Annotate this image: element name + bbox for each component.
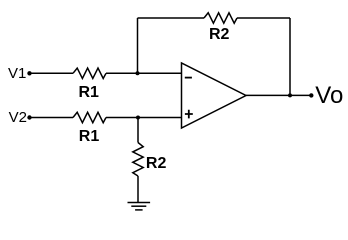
- node junction non-inverting input: [136, 116, 140, 120]
- svg-text:R2: R2: [146, 155, 167, 172]
- resistor R1 (top, inverting input): [73, 68, 106, 78]
- op-amp U1: [182, 63, 247, 128]
- wire V1 to R1: [32, 72, 74, 74]
- svg-text:R1: R1: [79, 128, 100, 145]
- node junction inverting input: [136, 71, 140, 75]
- pin + (non-inverting): [185, 110, 193, 119]
- wire feedback top left: [138, 17, 205, 19]
- node Vo terminal: [309, 93, 313, 97]
- ground: [128, 203, 151, 210]
- wire feedback right vertical: [289, 18, 291, 95]
- resistor R2 (to ground): [133, 143, 143, 177]
- wire op-amp output: [246, 94, 311, 96]
- wire feedback left vertical: [137, 18, 139, 73]
- node V2 terminal: [27, 115, 31, 119]
- node junction output/feedback: [288, 93, 292, 97]
- wire V2 to R1: [32, 117, 74, 119]
- svg-text:R2: R2: [209, 26, 230, 43]
- resistor R1 (bottom, non-inverting input): [73, 112, 106, 122]
- wire R2 to ground: [137, 176, 139, 203]
- wire junction down to R2: [137, 118, 139, 143]
- pin - (inverting): [185, 77, 192, 79]
- wire R1 to op-amp non-inverting input: [106, 117, 182, 119]
- wire feedback top right: [237, 17, 290, 19]
- svg-text:Vo: Vo: [315, 82, 343, 109]
- svg-text:V2: V2: [9, 109, 27, 126]
- svg-text:V1: V1: [8, 65, 26, 82]
- svg-text:R1: R1: [79, 84, 100, 101]
- node V1 terminal: [27, 71, 31, 75]
- wire R1 to op-amp inverting input: [106, 72, 182, 74]
- resistor R2 (feedback): [204, 13, 237, 23]
